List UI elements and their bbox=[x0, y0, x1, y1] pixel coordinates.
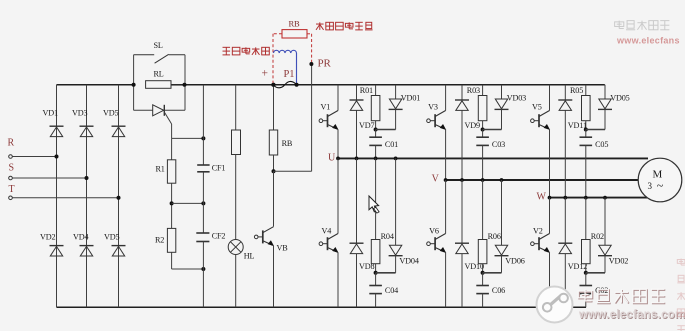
switch SL bbox=[134, 41, 185, 63]
wire C01 top lead bbox=[375, 130, 377, 138]
svg-text:VD06: VD06 bbox=[505, 256, 524, 265]
svg-text:VB: VB bbox=[277, 243, 289, 252]
inductor DC reactor bbox=[274, 50, 297, 84]
wire SCR gate bbox=[164, 112, 171, 138]
label phase V bbox=[432, 174, 440, 185]
wire VD06 top lead bbox=[501, 180, 503, 245]
wire R phase bbox=[12, 156, 56, 158]
wire VD12 top lead bbox=[564, 198, 566, 244]
diode VD4 (bottom row) bbox=[73, 233, 94, 257]
capacitor CF2 bbox=[196, 231, 225, 241]
diode VD06 bbox=[495, 245, 525, 265]
wire dashed left bbox=[273, 34, 282, 85]
diode VD1 bbox=[43, 108, 64, 136]
wire VD03 bend bbox=[483, 109, 502, 129]
wire R1 bottom lead bbox=[171, 183, 173, 228]
wire VD9 top lead bbox=[461, 85, 463, 100]
diode VD01 bbox=[389, 93, 421, 109]
node rail V at snubber bbox=[481, 178, 485, 182]
svg-text:SL: SL bbox=[154, 41, 163, 50]
svg-text:VD7: VD7 bbox=[359, 121, 375, 130]
resistor R03 bbox=[467, 86, 487, 121]
wire R03 bottom lead bbox=[482, 121, 484, 130]
wire R03 top lead bbox=[482, 85, 484, 96]
svg-text:W: W bbox=[537, 191, 547, 202]
transistor V3 bbox=[427, 102, 446, 129]
node rail V at transistor bbox=[444, 178, 448, 182]
svg-text:U: U bbox=[328, 152, 336, 163]
wire R06 top lead bbox=[482, 180, 484, 240]
resistor RL bbox=[146, 70, 171, 89]
corner watermark gray bbox=[615, 21, 670, 30]
wire V6 emitter bbox=[445, 253, 447, 308]
wire C02 bottom lead bbox=[585, 294, 587, 308]
wire VD11 top lead bbox=[564, 85, 566, 100]
transistor VB bbox=[254, 227, 288, 253]
svg-text:VD04: VD04 bbox=[399, 256, 418, 265]
node rail W at clamp diode bbox=[603, 196, 607, 200]
wire VD04 top lead bbox=[395, 158, 397, 245]
node rail U at snubber bbox=[374, 157, 378, 161]
label phase U bbox=[328, 152, 336, 163]
diode VD5 (bottom row) bbox=[104, 233, 126, 257]
wire bottom DC bus bbox=[57, 306, 587, 308]
svg-text:VD3: VD3 bbox=[72, 108, 88, 117]
wire C03 top lead bbox=[482, 130, 484, 138]
diode VD02 bbox=[598, 245, 628, 265]
svg-text:T: T bbox=[9, 184, 15, 195]
diode VD8 bbox=[350, 243, 375, 271]
terminal R bbox=[8, 138, 15, 159]
wire RB bottom lead bbox=[273, 155, 275, 171]
wire V2 emitter bbox=[549, 253, 551, 308]
svg-text:C04: C04 bbox=[385, 286, 398, 295]
diode VD7 bbox=[350, 100, 375, 130]
wire SL right leg bbox=[184, 55, 186, 85]
node CF2 bottom bbox=[201, 267, 205, 271]
wire VD06 bend bbox=[483, 256, 502, 273]
wire C02 top lead bbox=[585, 273, 587, 286]
fuse P1 link bbox=[273, 81, 296, 87]
diode VD11 bbox=[558, 100, 587, 130]
svg-text:RB: RB bbox=[289, 19, 301, 29]
svg-text:VD9: VD9 bbox=[465, 121, 481, 130]
node rail U at clamp diode bbox=[394, 157, 398, 161]
svg-text:www.elecfans.com: www.elecfans.com bbox=[578, 308, 685, 321]
wire RL-SL right leg lower bbox=[184, 85, 186, 111]
wire rectifier column 3 bbox=[118, 85, 120, 307]
wire V3 collector bbox=[445, 85, 447, 111]
node rail W at transistor bbox=[548, 196, 552, 200]
wire phase rail V bbox=[446, 179, 639, 181]
wire HL lower bbox=[235, 255, 237, 308]
svg-text:CF2: CF2 bbox=[212, 231, 226, 240]
resistor RB bbox=[269, 130, 293, 155]
wire SL left leg bbox=[133, 55, 135, 85]
transistor V5 bbox=[531, 102, 550, 129]
wire VD03 top lead bbox=[501, 85, 503, 99]
svg-text:VD4: VD4 bbox=[73, 233, 89, 242]
diode VD3 bbox=[72, 108, 94, 136]
wire V4 emitter bbox=[337, 253, 339, 308]
wire R01 top lead bbox=[375, 85, 377, 96]
wire CF column lower bbox=[202, 242, 204, 308]
svg-text:R2: R2 bbox=[155, 236, 164, 245]
wire C01 bottom lead bbox=[375, 145, 377, 158]
svg-text:V6: V6 bbox=[429, 226, 439, 235]
diode VD5 bbox=[103, 108, 126, 136]
wire top DC bus segment middle bbox=[146, 84, 185, 86]
wire R04 bottom lead bbox=[375, 264, 377, 273]
node RL right bbox=[183, 83, 187, 87]
node rail U at diode bbox=[355, 157, 359, 161]
wire S phase bbox=[12, 177, 86, 179]
node RB bottom bbox=[272, 169, 276, 173]
wire C03 bottom lead bbox=[482, 145, 484, 180]
svg-text:RL: RL bbox=[154, 70, 164, 79]
wire CF column upper bbox=[202, 85, 204, 165]
wire V2 collector bbox=[549, 198, 551, 234]
wire V5 collector bbox=[549, 85, 551, 111]
wire R2 bottom lead bbox=[172, 252, 204, 269]
wire VD10 bottom lead bbox=[461, 254, 463, 308]
node reactor right bbox=[295, 83, 299, 87]
terminal T bbox=[9, 184, 15, 200]
resistor RB external brake bbox=[282, 19, 307, 39]
svg-text:HL: HL bbox=[244, 251, 255, 260]
wire top DC bus segment left bbox=[57, 84, 134, 86]
svg-text:VD11: VD11 bbox=[568, 121, 587, 130]
wire R04 top lead bbox=[375, 158, 377, 239]
wire VD7 bottom lead bbox=[356, 110, 358, 158]
resistor R2 bbox=[155, 228, 176, 252]
wire HL upper bbox=[235, 155, 237, 240]
wire PR link horizontal bbox=[274, 170, 312, 172]
resistor bleeder (HL branch) bbox=[232, 85, 241, 155]
resistor R04 bbox=[371, 232, 394, 264]
wire C05 bottom lead bbox=[585, 145, 587, 197]
svg-text:PR: PR bbox=[318, 58, 332, 70]
wire VD02 top lead bbox=[604, 198, 606, 246]
svg-text:C06: C06 bbox=[492, 286, 505, 295]
wire phase rail U bbox=[338, 157, 648, 159]
diode VD9 bbox=[455, 100, 480, 130]
wire C04 top lead bbox=[375, 273, 377, 286]
svg-text:C01: C01 bbox=[385, 140, 398, 149]
svg-text:P1: P1 bbox=[284, 69, 295, 80]
wire VD11 bottom lead bbox=[564, 110, 566, 197]
resistor R06 bbox=[478, 232, 501, 264]
edge watermark red lower bbox=[677, 259, 685, 331]
node R junction bbox=[55, 155, 59, 159]
node upper snubber junction 2 bbox=[481, 128, 485, 132]
label phase W bbox=[537, 191, 547, 202]
node RB top bbox=[272, 83, 276, 87]
watermark logo bbox=[537, 287, 573, 323]
label P1 bbox=[284, 69, 295, 80]
wire R01 bottom lead bbox=[375, 121, 377, 130]
svg-text:V1: V1 bbox=[321, 102, 331, 111]
wire VD01 bend bbox=[376, 109, 396, 129]
capacitor C01 bbox=[369, 137, 398, 149]
svg-text:S: S bbox=[9, 163, 14, 174]
svg-text:VD02: VD02 bbox=[609, 256, 628, 265]
node CF1 top bbox=[201, 136, 205, 140]
wire C06 top lead bbox=[482, 273, 484, 286]
svg-text:V2: V2 bbox=[533, 226, 543, 235]
svg-text:R06: R06 bbox=[488, 232, 501, 241]
wire R05 bottom lead bbox=[585, 121, 587, 130]
wire VB emitter bbox=[273, 246, 275, 308]
wire VD05 bend bbox=[586, 109, 605, 129]
motor M 3-phase bbox=[638, 158, 682, 202]
label plus bbox=[262, 68, 268, 80]
svg-text:R04: R04 bbox=[381, 232, 394, 241]
wire VB collector bbox=[273, 171, 275, 226]
svg-text:VD5: VD5 bbox=[104, 233, 120, 242]
wire V6 collector bbox=[445, 180, 447, 234]
svg-text:VD1: VD1 bbox=[43, 108, 59, 117]
wire R02 bottom lead bbox=[585, 264, 587, 273]
wire C06 bottom lead bbox=[482, 294, 484, 308]
svg-text:V3: V3 bbox=[428, 102, 438, 111]
wire C05 top lead bbox=[585, 130, 587, 138]
svg-text:V5: V5 bbox=[532, 102, 542, 111]
transistor V6 bbox=[427, 226, 446, 252]
node T junction bbox=[117, 196, 121, 200]
transistor V2 bbox=[531, 226, 550, 252]
node lower snubber junction 3 bbox=[584, 271, 588, 275]
wire VD10 top lead bbox=[461, 180, 463, 243]
wire T phase bbox=[12, 197, 118, 199]
node rail U at transistor bbox=[336, 157, 340, 161]
wire VD12 bottom lead bbox=[564, 254, 566, 308]
svg-text:C03: C03 bbox=[492, 140, 505, 149]
svg-text:R03: R03 bbox=[467, 86, 480, 95]
node S junction bbox=[85, 176, 89, 180]
diode VD04 bbox=[389, 245, 419, 265]
node rail V at diode bbox=[460, 178, 464, 182]
diode VD2 (bottom row) bbox=[40, 233, 64, 257]
capacitor C03 bbox=[476, 137, 505, 149]
capacitor C04 bbox=[369, 286, 398, 295]
diode VD10 bbox=[455, 243, 484, 271]
capacitor CF1 bbox=[197, 164, 225, 173]
wire V4 collector bbox=[337, 158, 339, 233]
svg-text:V: V bbox=[432, 174, 440, 185]
node rail W at snubber bbox=[584, 196, 588, 200]
wire PR vertical bbox=[311, 64, 313, 171]
node rail V at clamp diode bbox=[500, 178, 504, 182]
svg-text:+: + bbox=[262, 68, 268, 80]
wire R02 top lead bbox=[585, 198, 587, 240]
label external brake resistor bbox=[316, 22, 373, 30]
wire divider mid link bbox=[172, 202, 204, 204]
svg-text:www.elecfans: www.elecfans bbox=[616, 36, 680, 46]
resistor R01 bbox=[360, 86, 380, 121]
wire R06 bottom lead bbox=[482, 264, 484, 273]
corner watermark red bbox=[616, 36, 680, 46]
svg-text:RB: RB bbox=[282, 139, 293, 148]
svg-text:3: 3 bbox=[648, 181, 653, 191]
resistor R1 bbox=[156, 160, 176, 183]
diode VD05 bbox=[598, 93, 630, 109]
wire RB top lead bbox=[273, 85, 275, 130]
wire RL-SL left leg lower bbox=[133, 85, 135, 111]
svg-text:VD05: VD05 bbox=[610, 93, 629, 102]
wire C04 bottom lead bbox=[375, 294, 377, 308]
transistor V1 bbox=[319, 102, 338, 129]
node CF divider mid bbox=[201, 201, 205, 205]
node upper snubber junction 3 bbox=[584, 128, 588, 132]
svg-text:R02: R02 bbox=[591, 232, 604, 241]
node lower snubber junction 2 bbox=[481, 271, 485, 275]
lamp HL bbox=[228, 240, 254, 261]
wire V1 emitter bbox=[337, 130, 339, 159]
wire V5 emitter bbox=[549, 130, 551, 198]
thyristor bypass SCR bbox=[134, 105, 185, 116]
resistor R02 bbox=[582, 232, 605, 264]
wire CF mid bbox=[202, 172, 204, 233]
node PR bbox=[309, 58, 331, 70]
svg-text:CF1: CF1 bbox=[212, 164, 226, 173]
watermark brand text bbox=[578, 289, 665, 303]
wire V1 collector bbox=[337, 85, 339, 111]
wire top DC bus segment right bbox=[185, 84, 605, 86]
transistor V4 bbox=[319, 226, 338, 252]
svg-text:R1: R1 bbox=[156, 165, 165, 174]
wire rectifier column 1 bbox=[56, 85, 58, 307]
wire VD8 top lead bbox=[356, 158, 358, 243]
node lower snubber junction 1 bbox=[374, 271, 378, 275]
node P1 left bbox=[271, 83, 275, 87]
node rail W at diode bbox=[563, 196, 567, 200]
wire VD9 bottom lead bbox=[461, 110, 463, 180]
label DC reactor bbox=[223, 47, 270, 55]
capacitor C02 bbox=[580, 286, 609, 295]
watermark url text bbox=[578, 308, 685, 322]
svg-text:C05: C05 bbox=[595, 140, 608, 149]
capacitor C06 bbox=[476, 286, 505, 295]
cursor artifact bbox=[369, 196, 379, 213]
svg-text:R05: R05 bbox=[570, 86, 583, 95]
wire rectifier column 2 bbox=[86, 85, 88, 307]
diode VD03 bbox=[495, 93, 527, 109]
svg-text:V4: V4 bbox=[322, 226, 332, 235]
svg-text:~: ~ bbox=[657, 179, 664, 193]
wire VD8 bottom lead bbox=[356, 254, 358, 308]
wire gate node horizontal bbox=[172, 137, 204, 139]
capacitor C05 bbox=[580, 137, 609, 149]
node RL left bbox=[132, 83, 136, 87]
wire phase rail W bbox=[550, 197, 648, 199]
wire dashed right bbox=[307, 34, 312, 62]
svg-text:R: R bbox=[8, 138, 15, 149]
svg-text:R01: R01 bbox=[360, 86, 373, 95]
wire R1 top lead bbox=[171, 138, 173, 159]
svg-text:VD5: VD5 bbox=[103, 108, 119, 117]
wire VD05 top lead bbox=[604, 85, 606, 99]
wire VD7 top lead bbox=[356, 85, 358, 100]
svg-text:VD03: VD03 bbox=[507, 93, 526, 102]
wire R05 top lead bbox=[585, 85, 587, 96]
terminal S bbox=[9, 163, 14, 180]
wire VD04 bend bbox=[376, 256, 396, 273]
wire VD01 top lead bbox=[395, 85, 397, 99]
node upper snubber junction 1 bbox=[374, 128, 378, 132]
wire V3 emitter bbox=[445, 130, 447, 181]
wire VD02 bend bbox=[586, 256, 605, 273]
diode VD12 bbox=[558, 243, 587, 271]
resistor R05 bbox=[570, 86, 590, 121]
svg-text:VD01: VD01 bbox=[401, 93, 420, 102]
node R divider mid bbox=[170, 201, 174, 205]
svg-text:VD2: VD2 bbox=[40, 233, 56, 242]
